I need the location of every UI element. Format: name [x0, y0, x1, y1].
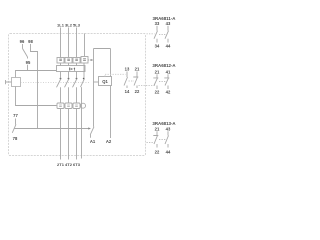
wire T3 output — [76, 109, 78, 160]
control bar A1-A2 — [94, 48, 111, 50]
magnetic overcurrent release L3 — [73, 58, 80, 64]
svg-text:42: 42 — [166, 90, 171, 95]
svg-text:3L2: 3L2 — [65, 23, 73, 28]
current transformer L1 — [57, 103, 64, 109]
svg-text:95: 95 — [26, 60, 31, 65]
release content marks — [59, 59, 86, 61]
svg-text:22: 22 — [135, 89, 140, 94]
contact in A1 wire — [90, 127, 94, 138]
wire T2 output — [68, 109, 70, 160]
trip arrow at A1 wire — [91, 59, 94, 61]
module 3 link dashes — [147, 140, 166, 143]
module 1 contact 43-44 NO — [165, 26, 169, 43]
trip rail arrowhead — [88, 127, 91, 129]
manual actuator box — [12, 78, 21, 87]
trip wire from 98 — [31, 49, 38, 129]
module 2 link dashes — [159, 81, 166, 83]
svg-text:A1: A1 — [90, 139, 96, 144]
svg-text:34: 34 — [155, 43, 160, 48]
svg-text:43: 43 — [166, 21, 171, 26]
current transformer L3 — [73, 103, 80, 109]
aux contact 13-14 NO — [124, 72, 128, 89]
link between aux contacts — [129, 80, 135, 82]
svg-text:96: 96 — [20, 39, 25, 44]
wire A2 — [110, 49, 112, 139]
overload CO common stub — [27, 57, 29, 59]
trip rail horizontal — [15, 128, 89, 130]
svg-text:3RA6813-A: 3RA6813-A — [152, 121, 176, 126]
svg-text:6T3: 6T3 — [73, 162, 81, 167]
svg-text:Q1: Q1 — [102, 79, 108, 84]
magnetic overcurrent release L1 — [57, 58, 64, 64]
wire T1 output — [60, 109, 62, 160]
svg-text:1L1: 1L1 — [57, 23, 65, 28]
svg-text:21: 21 — [155, 69, 160, 74]
svg-text:I> t: I> t — [69, 67, 76, 72]
CT content marks — [59, 105, 78, 106]
trip link dashes between releases — [64, 59, 92, 61]
svg-text:44: 44 — [166, 149, 171, 154]
main device dashed enclosure frame — [9, 34, 146, 156]
module 1 contact 33-34 NO — [154, 26, 158, 43]
overload CO contact stub 98 — [30, 44, 32, 49]
signalling contact blade — [12, 124, 16, 133]
svg-text:44: 44 — [166, 43, 171, 48]
main contact L1 — [57, 63, 62, 103]
wire L3 input — [76, 28, 78, 58]
svg-text:22: 22 — [155, 90, 160, 95]
svg-text:14: 14 — [125, 89, 130, 94]
mechanical link dotted from actuator to contacts — [21, 82, 91, 84]
wire L1 input — [60, 28, 62, 58]
coil / electronics Q1 box — [99, 77, 112, 86]
wire A1 — [93, 49, 95, 127]
aux contact 21-22 NC — [133, 72, 138, 89]
svg-text:33: 33 — [155, 21, 160, 26]
magnetic overcurrent release L2 — [65, 58, 72, 64]
svg-text:13: 13 — [125, 67, 130, 72]
svg-text:21: 21 — [155, 126, 160, 131]
svg-text:43: 43 — [166, 126, 171, 131]
current transformer L2 — [65, 103, 72, 109]
module 2 contact 21-22 NC — [153, 74, 158, 89]
actuator bottom link — [16, 87, 57, 106]
overload CO common wire down — [27, 65, 29, 71]
actuator terminal lead — [6, 80, 12, 84]
signalling contact stub — [15, 119, 17, 125]
main contact junction dots — [60, 78, 85, 80]
main contact L2 — [65, 63, 70, 103]
overload CO contact stub 96 — [22, 44, 24, 49]
svg-text:3RA6812-A: 3RA6812-A — [152, 63, 176, 68]
svg-text:41: 41 — [166, 69, 171, 74]
module 3 contact 21-22 NC — [153, 131, 158, 147]
svg-text:22: 22 — [155, 149, 160, 154]
module 3 contact 43-44 NO — [165, 131, 169, 147]
wire A1 to coil Q1 — [94, 81, 99, 83]
svg-text:98: 98 — [28, 39, 33, 44]
svg-text:5L3: 5L3 — [73, 23, 81, 28]
overload relay wide box — [57, 66, 86, 72]
svg-text:2T1: 2T1 — [57, 162, 65, 167]
svg-text:78: 78 — [13, 136, 18, 141]
overload CO contact blade — [23, 49, 28, 58]
mechanism sensor circle — [81, 103, 86, 108]
module 1 link dashes — [147, 33, 166, 36]
link to module 2 — [139, 85, 156, 87]
wire mechanism rail top — [84, 34, 86, 57]
mechanism contact — [81, 63, 85, 159]
magnetic release trip box mechanism — [81, 57, 88, 64]
module 2 contact 41-42 NC — [164, 74, 169, 89]
svg-text:4T2: 4T2 — [65, 162, 73, 167]
wire L2 input — [68, 28, 70, 58]
mechanism top link — [16, 71, 57, 78]
svg-text:A2: A2 — [106, 139, 112, 144]
svg-text:21: 21 — [135, 67, 140, 72]
svg-text:77: 77 — [13, 113, 18, 118]
main contact L3 — [73, 63, 78, 103]
mechanical link Q1 to aux contacts — [105, 74, 126, 76]
